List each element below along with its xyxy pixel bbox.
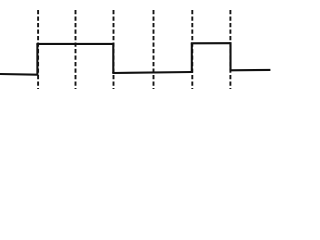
timing diagram: square wave with dashed time-division lines bbox=[0, 0, 278, 92]
waveform: high segment 1 bbox=[36, 43, 113, 45]
waveform: rising edge 1 bbox=[36, 44, 38, 76]
dashed time line T5 bbox=[191, 10, 193, 89]
dashed time line T4 bbox=[153, 10, 155, 89]
waveform: low segment 1 bbox=[0, 73, 37, 76]
waveform: low segment 2 bbox=[112, 72, 192, 73]
dashed time line T6 bbox=[229, 10, 231, 89]
waveform: falling edge 2 bbox=[229, 42, 231, 70]
dashed time line T2 bbox=[75, 10, 77, 89]
dashed time line T3 bbox=[113, 10, 115, 89]
waveform: falling edge 1 bbox=[112, 43, 114, 73]
dashed time line T1 bbox=[37, 10, 39, 89]
waveform: high segment 2 bbox=[191, 42, 231, 44]
waveform: rising edge 2 bbox=[191, 43, 193, 73]
waveform: low segment 3 bbox=[230, 69, 271, 72]
